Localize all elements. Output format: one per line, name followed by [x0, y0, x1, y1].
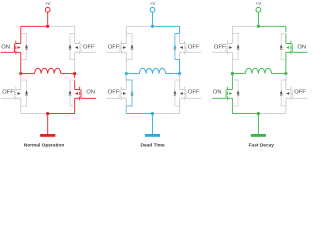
svg-text:Dead Time: Dead Time: [141, 142, 166, 148]
diode body-diode top-right (deadtime): [175, 34, 180, 60]
wire supply lead (fastdecay): [257, 12, 259, 26]
wire middle rail right (fastdecay): [272, 73, 286, 75]
diode body-diode bottom-left (fastdecay): [232, 80, 238, 106]
svg-text:OFF: OFF: [83, 45, 95, 51]
svg-text:OFF: OFF: [214, 45, 226, 51]
svg-text:OFF: OFF: [108, 45, 120, 51]
wire middle rail left (deadtime): [126, 73, 139, 75]
wire left high-side (deadtime): [125, 26, 127, 43]
wire freewheel path high-side right (deadtime): [179, 26, 181, 33]
diode body-diode bottom-left (deadtime): [126, 80, 132, 106]
svg-text:OFF: OFF: [108, 90, 120, 96]
wire middle rail left (fastdecay): [232, 73, 245, 75]
wire middle rail left (normal): [21, 73, 35, 75]
transistor top-right MOSFET (fastdecay): [291, 44, 293, 53]
wire top rail left (fastdecay): [232, 25, 258, 27]
svg-text:+V: +V: [45, 1, 52, 6]
wire bottom rail left (fastdecay): [232, 113, 258, 115]
node middle-right junction (normal): [73, 72, 76, 75]
svg-text:OFF: OFF: [188, 45, 200, 51]
wire supply lead (normal): [47, 12, 49, 26]
transistor top-right MOSFET (normal): [80, 44, 82, 53]
wire bottom rail right (fastdecay): [258, 113, 286, 115]
node bottom junction (fastdecay): [257, 112, 260, 115]
svg-text:+V: +V: [150, 1, 157, 6]
wire right low-side (normal): [74, 74, 76, 79]
wire ground lead (normal): [47, 114, 49, 134]
supply terminal circle (deadtime): [150, 7, 155, 12]
transistor bottom-right MOSFET (normal): [80, 90, 82, 99]
node bottom junction (deadtime): [151, 112, 154, 115]
node middle-right junction (fastdecay): [284, 72, 287, 75]
wire ground lead (deadtime): [152, 114, 154, 134]
svg-text:ON: ON: [1, 45, 10, 51]
svg-text:ON: ON: [297, 45, 306, 51]
node top junction (fastdecay): [257, 25, 260, 28]
inductor motor winding (normal): [35, 68, 61, 73]
svg-text:OFF: OFF: [188, 90, 200, 96]
wire supply lead (deadtime): [152, 12, 154, 26]
wire left high-side (fastdecay): [231, 26, 233, 43]
wire middle rail right (normal): [61, 73, 75, 75]
wire top rail right (deadtime): [153, 25, 180, 27]
diode body-diode top-right (normal): [70, 34, 75, 60]
wire middle rail right (deadtime): [166, 73, 180, 75]
svg-text:OFF: OFF: [2, 90, 14, 96]
svg-text:ON: ON: [213, 90, 222, 96]
inductor motor winding (deadtime): [139, 68, 165, 73]
ground symbol (fastdecay): [251, 134, 266, 137]
wire top rail right (fastdecay): [258, 25, 286, 27]
transistor top-left MOSFET (fastdecay): [225, 44, 227, 53]
wire right low-side (deadtime): [179, 74, 181, 90]
wire right low-side (fastdecay): [285, 74, 287, 90]
node middle-left junction (fastdecay): [231, 72, 234, 75]
diode body-diode top-right (fastdecay): [281, 34, 286, 60]
transistor top-left MOSFET (deadtime): [119, 44, 121, 53]
transistor bottom-right MOSFET (deadtime): [185, 90, 187, 99]
transistor bottom-left MOSFET (normal): [14, 90, 16, 99]
svg-text:OFF: OFF: [294, 90, 306, 96]
transistor top-left MOSFET (normal): [14, 44, 16, 53]
diode body-diode top-left (fastdecay): [232, 34, 238, 60]
ground symbol (deadtime): [145, 134, 160, 137]
diode body-diode bottom-left (normal): [21, 80, 27, 106]
wire left low-side (deadtime): [125, 74, 127, 90]
svg-text:+V: +V: [256, 1, 263, 6]
supply terminal circle (fastdecay): [256, 7, 261, 12]
node top junction (deadtime): [151, 25, 154, 28]
supply terminal circle (normal): [45, 7, 50, 12]
wire top rail left (normal): [21, 25, 48, 27]
node middle-left junction (normal): [19, 72, 22, 75]
wire left low-side (normal): [20, 74, 22, 90]
svg-text:Fast Decay: Fast Decay: [249, 142, 275, 148]
wire right high-side (fastdecay): [285, 26, 287, 32]
svg-text:ON: ON: [86, 90, 95, 96]
ground symbol (normal): [40, 134, 55, 137]
wire bottom rail left (deadtime): [126, 113, 152, 115]
node middle-left junction (deadtime): [125, 72, 128, 75]
wire left high-side (normal): [20, 26, 22, 43]
wire freewheel path low-side left (deadtime): [125, 74, 127, 80]
diode body-diode bottom-right (deadtime): [175, 80, 180, 106]
transistor bottom-left MOSFET (fastdecay): [225, 90, 227, 99]
wire right high-side (deadtime): [179, 26, 181, 43]
wire ground lead (fastdecay): [257, 114, 259, 134]
diode body-diode bottom-right (normal): [70, 80, 75, 106]
wire top rail right (normal): [48, 25, 75, 27]
node middle-right junction (deadtime): [178, 72, 181, 75]
transistor top-right MOSFET (deadtime): [185, 44, 187, 53]
diode body-diode top-left (deadtime): [126, 34, 132, 60]
node bottom junction (normal): [46, 112, 49, 115]
svg-text:Normal Operation: Normal Operation: [24, 142, 65, 148]
wire bottom rail right (deadtime): [153, 113, 180, 115]
diode body-diode bottom-right (fastdecay): [281, 80, 286, 106]
wire left low-side (fastdecay): [231, 74, 233, 90]
wire bottom rail left (normal): [21, 113, 48, 115]
diode body-diode top-left (normal): [21, 34, 27, 60]
wire bottom rail right (normal): [48, 113, 75, 115]
inductor motor winding (fastdecay): [245, 68, 271, 73]
node top junction (normal): [46, 25, 49, 28]
wire right high-side (normal): [74, 26, 76, 43]
wire top rail left (deadtime): [126, 25, 152, 27]
transistor bottom-right MOSFET (fastdecay): [291, 90, 293, 99]
transistor bottom-left MOSFET (deadtime): [119, 90, 121, 99]
